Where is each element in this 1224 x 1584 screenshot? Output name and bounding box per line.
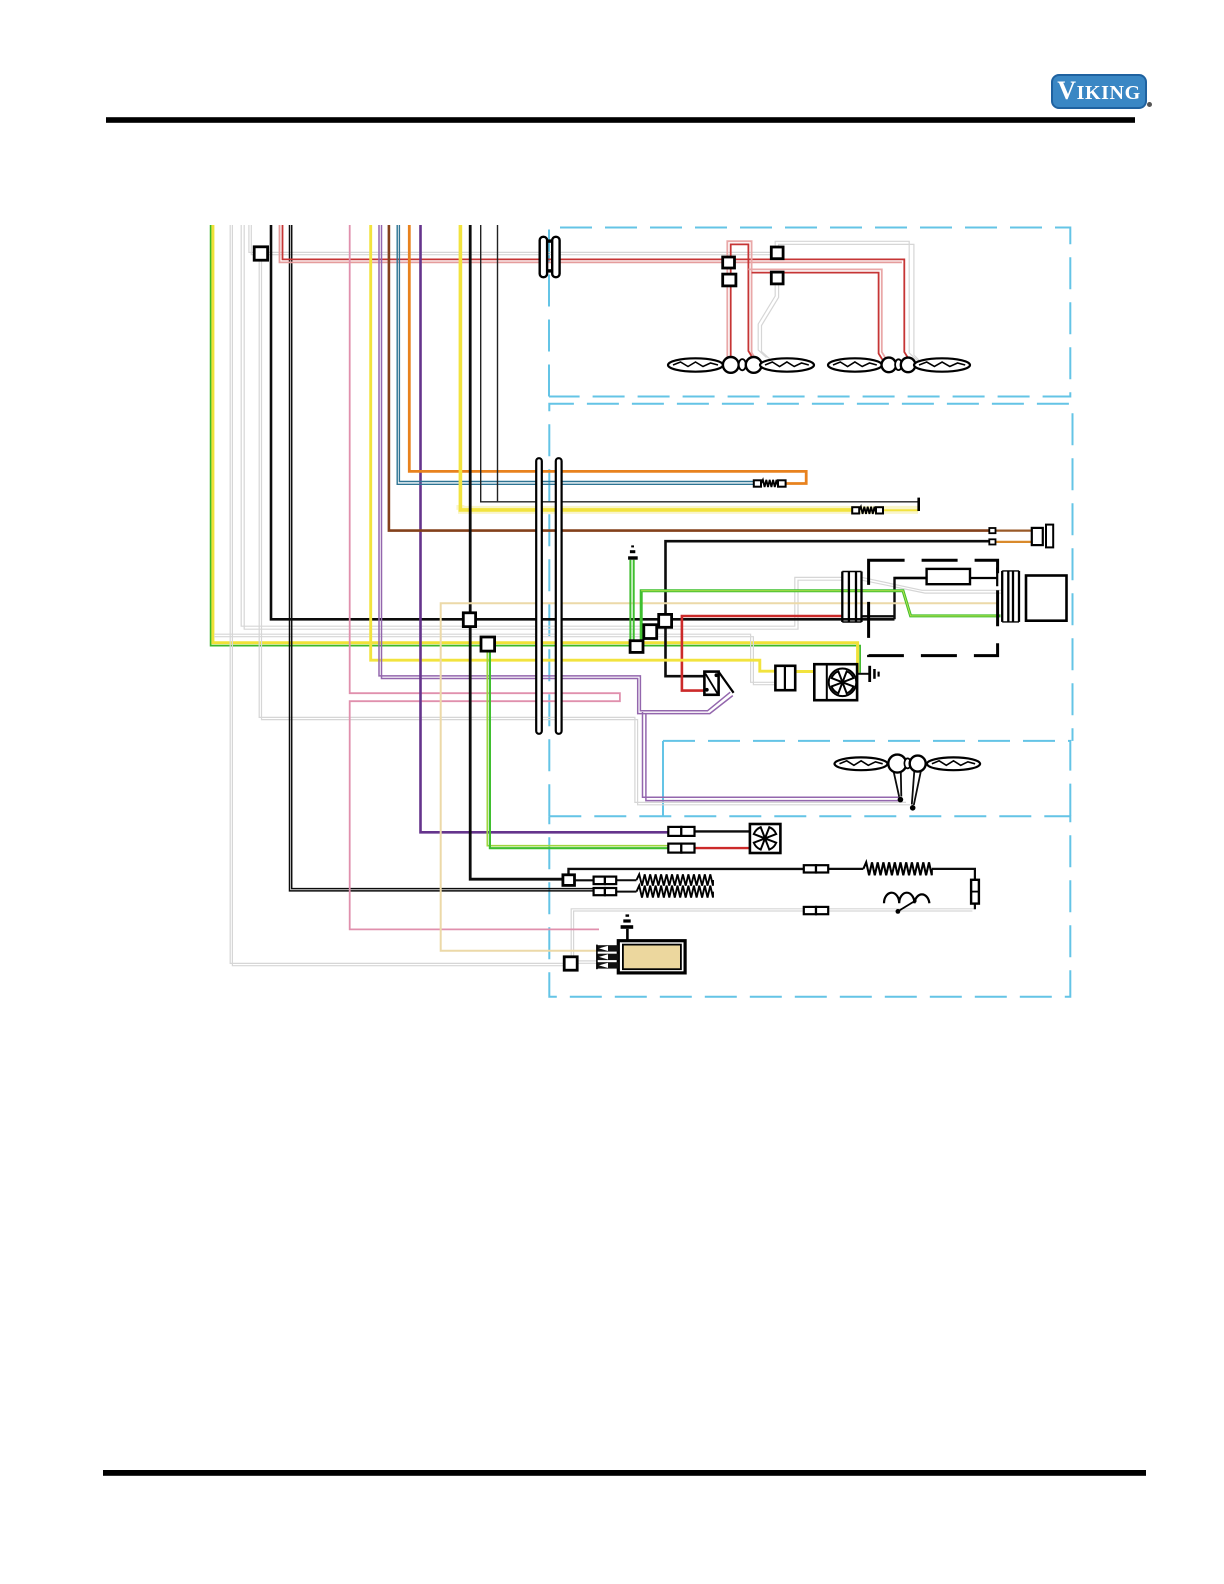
wire green ground pair to junction S9 bbox=[630, 560, 633, 641]
wire violet VT1 (condenser fan) bbox=[421, 225, 669, 832]
wire yellow YL2 (thermistor 2) bbox=[460, 225, 852, 510]
condenser fan box FB2 bbox=[750, 824, 781, 853]
spark module A1 body bbox=[618, 941, 685, 973]
evap fan motor M5 body bbox=[1026, 576, 1067, 621]
wire black B2b bbox=[292, 225, 595, 889]
junction S12 bbox=[564, 957, 577, 970]
wire black B3 (defrost heater feed) bbox=[470, 225, 563, 879]
wire green GN1 light core bbox=[641, 591, 999, 616]
wire teal TL2 bbox=[399, 225, 754, 482]
wire pink PK1 (U loop and module lead) bbox=[350, 225, 620, 929]
top fan M1 blade bbox=[668, 358, 723, 371]
thermistor RT2 terminals and element bbox=[852, 507, 883, 514]
wire orange plug stub bbox=[995, 541, 1032, 543]
grommet P1 (cabinet pass-through, top) bbox=[540, 237, 560, 277]
wire white W-B pass-through diagonals at connector bbox=[862, 577, 1001, 590]
wire yellow-green earth (green outer) bbox=[211, 225, 861, 673]
compressor run winding coil L3 bbox=[863, 862, 931, 875]
wire yellow capacitor to evap fanbox bbox=[795, 670, 815, 673]
wire red fan M1 drop dark bbox=[730, 268, 732, 360]
wire red loop at junction S2 inner bbox=[731, 244, 752, 356]
wire white W-B2 bbox=[244, 225, 842, 629]
mullion fan tip stub bbox=[904, 758, 910, 768]
overload protector F1 bbox=[971, 880, 979, 904]
wire red fan M1 drop light bbox=[726, 268, 728, 360]
wire black evap fanbox to ground bbox=[857, 673, 869, 675]
wire black B1 relay link vertical bbox=[895, 578, 927, 619]
wire tan TN1 (to spark module) bbox=[441, 603, 998, 950]
top fan M4 blade bbox=[914, 358, 970, 371]
top fan M1 hub bbox=[723, 357, 739, 373]
terminal orange plug bbox=[989, 539, 995, 544]
wire gray top fan pair G2 bbox=[779, 244, 921, 362]
wire black resistor leads bbox=[895, 568, 998, 587]
top fan M2 blade bbox=[760, 358, 814, 371]
wire black B1 connector stub bbox=[863, 615, 895, 617]
wire red fan M3 branch light bbox=[748, 269, 885, 358]
thermistor RT1 terminals and element bbox=[754, 480, 786, 487]
wire yellow thermistor 2 tail bbox=[876, 509, 918, 511]
top fan M3 blade bbox=[828, 358, 882, 371]
junction S9 bbox=[630, 641, 643, 653]
terminal pair T6 (compressor lower) bbox=[804, 907, 828, 914]
ground GND1 (evaporator) bbox=[628, 545, 638, 559]
wire yellow-green earth (yellow core) bbox=[213, 225, 858, 673]
terminal pair T1 (condenser fan black) bbox=[668, 827, 694, 836]
wire black coil3 to overload bbox=[932, 869, 975, 909]
wire green GN1 (evap motor run) bbox=[641, 591, 1000, 641]
wire red loop at junction S2 outer bbox=[727, 241, 754, 357]
wire gray fan M2 drop H2 bbox=[762, 284, 779, 360]
defrost bimetal switch SW1 bbox=[704, 672, 733, 695]
footer rule bbox=[103, 1470, 1146, 1476]
junction S10 bbox=[481, 637, 495, 651]
wire white W-A1 (to spark module) bbox=[230, 225, 564, 963]
mullion fan M7 blade bbox=[927, 757, 980, 770]
terminal pair T4 (defrost heater lower) bbox=[594, 888, 617, 895]
wire gray top fan pair G1 (from junction S4 up over to fan M4) bbox=[775, 241, 917, 360]
ground GND3 (spark module) bbox=[621, 914, 634, 940]
mullion fan M6 blade bbox=[835, 757, 888, 770]
heater coil L2 bbox=[637, 886, 714, 898]
wire white relay return R1 bbox=[571, 909, 975, 957]
wire thermistor 2 end bar bbox=[917, 498, 920, 511]
resistor R1 (motor winding) bbox=[927, 569, 970, 584]
wire white W-C1 (to top fans) bbox=[249, 225, 772, 252]
wire purple PP2 thin bbox=[382, 225, 733, 714]
junction S6 bbox=[463, 613, 475, 627]
wire white W-F1 (to run capacitor) bbox=[214, 634, 776, 682]
wire black B2a (to defrost heater) bbox=[290, 225, 595, 891]
top fan M3 short blade tip bbox=[895, 359, 902, 370]
wire brown BR1 (compressor feed) bbox=[389, 225, 990, 531]
junction S4 bbox=[771, 247, 783, 259]
wire white-black WB1 (thermistor 2 return) bbox=[481, 225, 919, 502]
terminal brown plug bbox=[989, 528, 995, 533]
mullion fan M6 hub bbox=[888, 755, 906, 773]
wire brown plug stub bbox=[995, 529, 1032, 531]
top fan M1 short blade tip bbox=[739, 359, 746, 370]
section box 1: top fans compartment bbox=[549, 228, 1070, 397]
wire white W-C2 bbox=[251, 225, 772, 255]
terminal pair T2 (condenser fan red) bbox=[668, 844, 694, 853]
wire white module stubs bbox=[577, 961, 598, 963]
wire black B1 (thermostat feed) bbox=[271, 225, 895, 619]
plug connector P2 (defrost t-stat plug) bbox=[1032, 525, 1053, 548]
junction S11 bbox=[563, 875, 575, 886]
wire black condenser fan feed bbox=[695, 830, 751, 832]
top fan M3 hub bbox=[882, 358, 897, 373]
wire white-black WB2 bbox=[497, 225, 499, 501]
section box 2: main compartment bbox=[549, 404, 1072, 816]
wire black mullion fan lead 2 bbox=[912, 771, 921, 805]
wire white W-F2 bbox=[214, 637, 776, 685]
wire white W-B1 (to evap motor) bbox=[241, 225, 842, 626]
relay dashed enclosure (evap fan motor assembly) bbox=[869, 560, 998, 655]
junction S1 bbox=[254, 247, 267, 260]
wire red RD1 light (top fans feed outer) bbox=[280, 225, 902, 262]
wire green condenser branch light bbox=[487, 651, 669, 846]
section box 3: mullion fan compartment bbox=[663, 741, 1070, 816]
terminal pair T5 (compressor upper) bbox=[804, 865, 828, 872]
wire red fan M3 branch dark bbox=[752, 273, 883, 360]
junction S8 bbox=[644, 625, 657, 639]
evap fan box FB1 bbox=[814, 664, 857, 700]
junction S7 bbox=[659, 614, 672, 627]
wire white relay return R2 bbox=[574, 911, 973, 957]
section box 3 left edge bbox=[662, 741, 664, 816]
junction dot mullion lead 1 bbox=[898, 797, 904, 803]
wire white W-D2 bbox=[262, 260, 911, 805]
top fan M4 hub bbox=[901, 358, 916, 373]
wire black terminals to coil1 bbox=[616, 880, 636, 891]
wire orange OR1 (thermistor loop) bbox=[409, 225, 806, 484]
ground GND2 (evap fan, sideways) bbox=[868, 666, 879, 682]
junction S2 bbox=[723, 257, 735, 268]
connector CN1 (evap motor, left half) bbox=[842, 572, 861, 623]
wire green condenser branch dark bbox=[490, 651, 669, 848]
start relay coil K1 bbox=[884, 893, 929, 904]
wire red compressor-area RD2 (defrost t-stat to bimetal) bbox=[682, 616, 842, 691]
heater coil L1 bbox=[637, 874, 714, 885]
bulkhead connector J1 (tall double bar) bbox=[536, 458, 561, 734]
wire black relay terminals to coil3 bbox=[828, 868, 863, 870]
wire yellow halo band (thermistor 2) bbox=[458, 505, 918, 510]
Viking logo bbox=[1051, 74, 1147, 109]
wire purple mullion drop B bbox=[646, 714, 903, 801]
wire black heater junction to terminals bbox=[574, 879, 594, 881]
wire yellow YL1 (to run capacitor) bbox=[371, 225, 776, 671]
junction S3 bbox=[723, 274, 736, 286]
wire purple mullion drop A bbox=[643, 712, 900, 797]
wire purple PP1 thin (mode switch / mullion fans) bbox=[379, 225, 730, 711]
header rule bbox=[106, 117, 1135, 123]
wire black defrost t-stat feed (vertical + top run to plug) bbox=[666, 541, 990, 676]
start relay contact bbox=[896, 899, 917, 914]
junction S5 bbox=[771, 272, 783, 284]
wire red RD1 dark (top fans feed inner) bbox=[283, 225, 909, 358]
run capacitor C1 bbox=[775, 666, 795, 690]
junction dot mullion lead 2 bbox=[910, 805, 916, 811]
wire white W-D1 (to mullion fan) bbox=[259, 260, 906, 802]
section box 4: machine compartment bbox=[549, 816, 1070, 997]
wire black heater junction up-stub bbox=[569, 869, 805, 876]
terminal pair T3 (defrost heater upper) bbox=[594, 877, 617, 885]
mullion fan M7 hub bbox=[910, 756, 926, 772]
spark module A1 pin block bbox=[597, 945, 619, 970]
top fan M2 hub bbox=[746, 357, 762, 373]
wire black mullion fan lead 1 bbox=[894, 771, 902, 797]
wire gray fan M2 drop H1 (from junction S5 down to fan M2) bbox=[758, 284, 775, 358]
wire red condenser fan feed bbox=[695, 847, 751, 849]
wire teal TL1 (thermistor) bbox=[397, 225, 754, 484]
wire white W-A2 bbox=[232, 225, 564, 966]
connector CN2 (evap motor, right half) bbox=[1002, 571, 1019, 622]
